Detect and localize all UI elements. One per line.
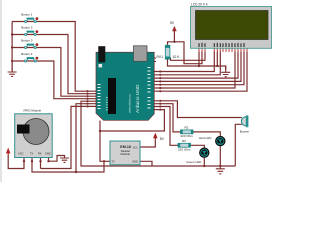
wire rx to row4 (100, 110, 164, 131)
ground buttons (8, 61, 17, 76)
wire lcd d5 (154, 52, 241, 82)
canvas left edge (0, 0, 2, 182)
LCD LM044L 20x4 (191, 7, 272, 49)
arduino U1 board (96, 46, 154, 121)
wire arduino bottom stub to em18 tx (100, 121, 110, 162)
power arrow 5v pot (172, 26, 177, 32)
svg-text:VCC: VCC (133, 147, 138, 150)
reset button (99, 64, 103, 67)
atmega IC (108, 78, 116, 114)
wire button1 row (12, 22, 96, 92)
svg-text:Button 1: Button 1 (21, 13, 33, 17)
svg-text:TX: TX (30, 152, 34, 155)
svg-text:220 Ohm: 220 Ohm (181, 134, 194, 138)
resistor R3 (178, 143, 191, 147)
button 3 (25, 43, 39, 48)
wire vee net (171, 52, 206, 61)
power arrow 5v em18 (153, 133, 158, 139)
svg-text:Arduino UNO: Arduino UNO (135, 84, 141, 113)
wire rfid pin3 stub (40, 158, 42, 169)
svg-text:R3: R3 (182, 139, 186, 143)
wire pot bottom gnd net (168, 52, 226, 70)
wire r3 to green led (191, 145, 205, 148)
RFID module (15, 114, 53, 158)
svg-text:RFID Module: RFID Module (24, 109, 42, 113)
left pin labels (98, 84, 101, 109)
wire button3 row (12, 48, 96, 97)
svg-text:Button 2: Button 2 (21, 26, 33, 30)
wire em18 vcc to 5v (140, 138, 155, 147)
right pin labels (148, 67, 151, 109)
svg-text:Green LED: Green LED (186, 160, 202, 164)
svg-text:Buzzer: Buzzer (240, 130, 249, 134)
wire lcd d7 (154, 52, 247, 91)
wire button4 row (12, 61, 96, 99)
LED D2 green (199, 148, 209, 158)
svg-text:www.arduino.cc: www.arduino.cc (128, 94, 132, 113)
svg-text:LCD 20 X 4: LCD 20 X 4 (191, 3, 208, 7)
IC pin marks (106, 97, 107, 110)
wire lcd d3 spare (154, 52, 235, 88)
wire green led to rail (203, 158, 205, 166)
wire lcd rs (154, 52, 214, 72)
lcd pin tick labels (199, 43, 244, 47)
button 1 (25, 17, 39, 22)
svg-text:GND: GND (45, 152, 51, 155)
svg-text:5V: 5V (160, 137, 165, 141)
svg-text:220 Ohm: 220 Ohm (178, 148, 191, 152)
svg-text:RX: RX (38, 152, 42, 155)
ground lcd (221, 66, 230, 77)
svg-text:GND: GND (132, 161, 138, 164)
svg-text:Module: Module (121, 152, 131, 156)
lcd pin stubs (199, 48, 247, 52)
svg-text:Button 3: Button 3 (21, 39, 33, 43)
wire pot top net (168, 31, 203, 64)
svg-text:VCC: VCC (18, 152, 23, 155)
ground rail (216, 166, 225, 174)
resistor R2 (181, 130, 194, 134)
button 4 (25, 57, 39, 62)
wire rfid pin1 to power (8, 155, 24, 169)
wire lcd e (154, 52, 220, 75)
wire em18 gnd rail join (140, 161, 152, 166)
wire r2 to red led (193, 132, 220, 136)
wire lcd d4 (154, 52, 238, 78)
wire button2 row (12, 35, 96, 94)
LED D1 red (215, 136, 225, 146)
wire r3 net (154, 107, 178, 146)
svg-text:Red LED: Red LED (199, 136, 212, 140)
wire red led to rail (219, 146, 221, 166)
usb connector (134, 46, 148, 62)
svg-text:5V: 5V (170, 21, 175, 25)
wire arduino left A (81, 101, 235, 166)
wire button bus vertical (11, 22, 13, 72)
power jack (98, 46, 105, 62)
svg-text:10 K: 10 K (173, 55, 181, 59)
ground rfid (60, 156, 69, 163)
wire arduino left C (41, 106, 97, 168)
button 2 (25, 30, 39, 35)
power arrow rfid (6, 148, 11, 155)
wire rfid pin4 to ground (49, 156, 65, 162)
svg-text:Button 4: Button 4 (21, 52, 33, 56)
wire buzzer top (154, 101, 242, 118)
svg-text:R2: R2 (185, 126, 189, 130)
wire buzzer bottom (235, 124, 242, 166)
svg-text:TX: TX (112, 161, 116, 164)
svg-text:EM-18: EM-18 (120, 145, 131, 149)
svg-text:RV1: RV1 (157, 55, 164, 59)
EM-18 reader module (110, 141, 140, 165)
pot RV1 10K (165, 45, 170, 59)
arduino aux pin stubs (154, 58, 156, 62)
wire arduino left B (76, 104, 96, 172)
buzzer (241, 115, 248, 127)
wire lcd d6 (154, 52, 244, 85)
wire rfid pin2 to rx net (32, 158, 104, 172)
wire r2 net (154, 104, 180, 132)
